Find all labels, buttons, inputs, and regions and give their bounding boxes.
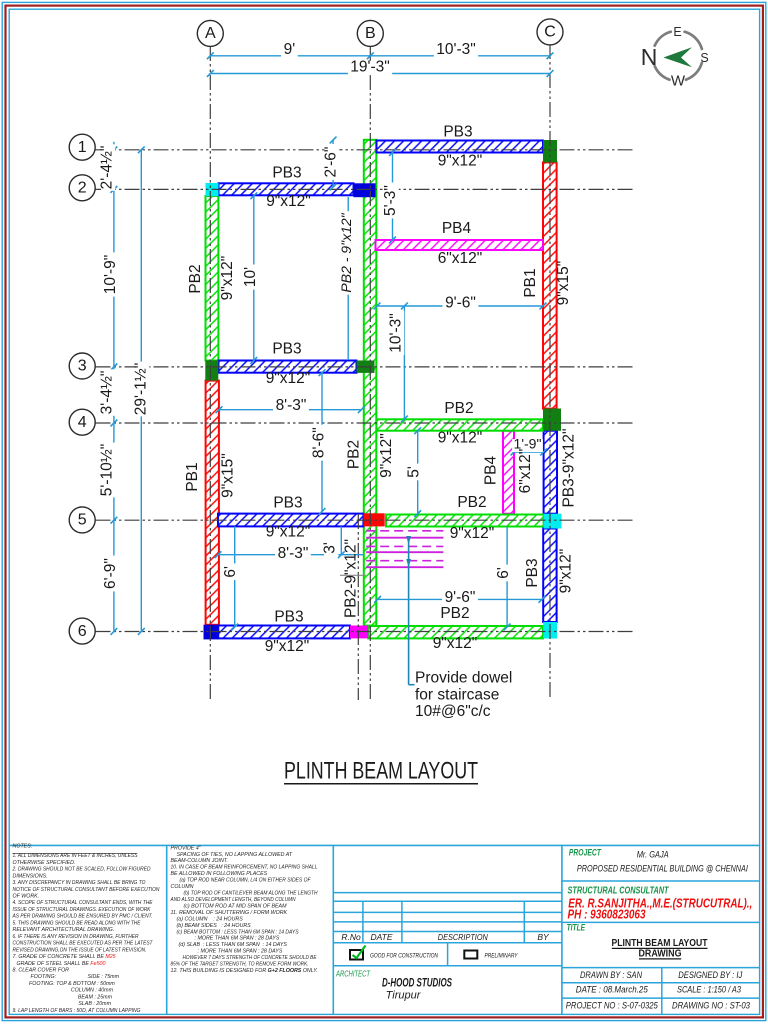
svg-text:GOOD FOR CONSTRUCTION: GOOD FOR CONSTRUCTION: [370, 952, 438, 959]
svg-text:8'-6": 8'-6": [311, 427, 328, 458]
grid bubble B: [357, 20, 383, 46]
svg-text:6"x12": 6"x12": [517, 449, 534, 494]
svg-text:PROJECT NO : S-07-0325: PROJECT NO : S-07-0325: [566, 1000, 659, 1011]
svg-text:DATE: DATE: [370, 932, 392, 942]
svg-text:6: 6: [78, 623, 87, 640]
svg-text:PB1: PB1: [522, 268, 539, 297]
grid line column B: [369, 46, 371, 700]
svg-text:85% OF THE TARGET STRENGTH, TO: 85% OF THE TARGET STRENGTH, TO REMOVE FO…: [171, 962, 309, 968]
svg-text:5. THIS DRAWING SHOULD BE READ: 5. THIS DRAWING SHOULD BE READ ALONG WIT…: [13, 920, 141, 926]
grid line row 4: [96, 422, 635, 424]
dimension 8'-3" room A-B rows 5-6: [218, 554, 364, 556]
svg-text:10': 10': [242, 267, 259, 287]
svg-text:E: E: [673, 25, 681, 39]
svg-text:PROVIDE 4": PROVIDE 4": [171, 845, 202, 851]
staircase grid line near B: [357, 514, 359, 700]
svg-text:DATE : 08.March.25: DATE : 08.March.25: [576, 985, 649, 996]
svg-text:NOTICE OF STRUCTURAL CONSULTAN: NOTICE OF STRUCTURAL CONSULTANT BEFORE E…: [13, 887, 160, 893]
dimension 8'-6" rows 3-5: [321, 373, 323, 512]
svg-text:DESCRIPTION: DESCRIPTION: [438, 932, 489, 942]
staircase edge extension line: [340, 526, 342, 554]
svg-text:DESIGNED BY : IJ: DESIGNED BY : IJ: [678, 970, 742, 981]
svg-text:(c) BOTTOM ROD AT MID SPAN OF: (c) BOTTOM ROD AT MID SPAN OF BEAM: [184, 903, 288, 909]
svg-text:9"x12": 9"x12": [219, 256, 236, 301]
column block B/2 (dark blue): [354, 183, 376, 197]
svg-text:PB2: PB2: [440, 605, 469, 622]
svg-text:: MORE THAN 6M SPAN : 28 DAYS: : MORE THAN 6M SPAN : 28 DAYS: [198, 949, 283, 955]
svg-text:PB4: PB4: [442, 220, 472, 237]
column block B/3 (dark green): [357, 361, 375, 373]
beam PB1 column A rows 3-6 (red 9"x15"): [206, 381, 219, 625]
svg-text:8'-3": 8'-3": [276, 397, 307, 414]
beam PB2 column B rows 1-6 (green 9"x12"): [364, 140, 377, 626]
svg-text:6. IF THERE IS ANY REVISION IN: 6. IF THERE IS ANY REVISION IN DRAWING, …: [13, 934, 139, 940]
svg-text:9"x12": 9"x12": [266, 193, 311, 210]
svg-text:N: N: [641, 44, 658, 70]
svg-text:29'-1½": 29'-1½": [133, 363, 150, 415]
leader gray line at PB2-9"x12" label: [340, 574, 366, 576]
svg-text:DRAWN BY : SAN: DRAWN BY : SAN: [580, 970, 642, 981]
svg-text:D-HOOD STUDIOS: D-HOOD STUDIOS: [382, 978, 452, 990]
svg-text:1: 1: [78, 139, 87, 156]
svg-text:8. CLEAR COVER FOR: 8. CLEAR COVER FOR: [13, 968, 70, 974]
svg-text:A: A: [205, 25, 216, 42]
preliminary checkbox: [464, 951, 477, 959]
svg-text:11. REMOVAL OF SHUTTERING / FO: 11. REMOVAL OF SHUTTERING / FORM WORK: [171, 910, 288, 916]
svg-text:PRELIMINARY: PRELIMINARY: [485, 952, 519, 959]
beam PB3 row 2 A-B (blue 9"x12"): [219, 183, 354, 195]
beam PB2 column A rows 2-3 (green 9"x12"): [206, 196, 219, 361]
svg-text:FOOTING:: FOOTING:: [31, 974, 57, 980]
beam PB3 row 6 A-B (blue 9"x12"): [218, 626, 350, 639]
svg-text:12. THIS BUILDING IS DESIGNED: 12. THIS BUILDING IS DESIGNED FOR G+2 FL…: [171, 968, 318, 974]
revision table: [333, 892, 562, 894]
beam PB2 row 5 B-C (green 9"x12"): [386, 515, 544, 527]
svg-text:5': 5': [406, 466, 423, 478]
dimension 5' room B-C rows 4-5: [417, 431, 419, 514]
column block C/4 (dark green): [543, 409, 561, 431]
svg-text:19'-3": 19'-3": [350, 58, 389, 75]
dimension line 9' / 10'-3" (A-B-C): [210, 55, 550, 57]
svg-text:3'-4½": 3'-4½": [99, 371, 116, 415]
svg-text:PB4: PB4: [483, 455, 500, 485]
svg-text:2: 2: [78, 180, 87, 197]
svg-text:PB2-9"x12": PB2-9"x12": [343, 539, 360, 618]
beam PB3 column C rows 5-6 (blue 9"x12"): [543, 529, 556, 623]
svg-text:ISSUE OF STRUCTURAL DRAWINGS.: ISSUE OF STRUCTURAL DRAWINGS. EXECUTION …: [13, 907, 151, 913]
svg-text:GRADE OF STEEL SHALL BE Fe500: GRADE OF STEEL SHALL BE Fe500: [17, 961, 106, 967]
svg-text:BEAM : 25mm: BEAM : 25mm: [78, 994, 113, 1000]
svg-text:AS PER DRAWING SHOULD BE ENSUR: AS PER DRAWING SHOULD BE ENSURED BY PMC …: [12, 914, 153, 920]
svg-text:PB1: PB1: [184, 462, 201, 491]
grid bubble C: [537, 19, 563, 45]
svg-text:OTHERWISE SPECIFIED.: OTHERWISE SPECIFIED.: [13, 860, 76, 866]
svg-text:3: 3: [78, 358, 87, 375]
svg-text:10'-3": 10'-3": [388, 313, 405, 352]
svg-text:9"x15": 9"x15": [555, 261, 572, 306]
svg-text:9"x12": 9"x12": [433, 635, 478, 652]
grid bubble 1: [69, 134, 95, 160]
svg-text:2. DRAWING SHOULD NOT BE SCALE: 2. DRAWING SHOULD NOT BE SCALED, FOLLOW …: [12, 867, 151, 873]
dimension 9'-6" room B-C rows 5-6: [378, 598, 542, 600]
svg-text:PH : 9360823063: PH : 9360823063: [568, 908, 646, 922]
svg-text:5'-10½": 5'-10½": [99, 444, 116, 496]
compass north arrow: [663, 47, 692, 67]
svg-text:(a) COLUMN : 24 HOURS: (a) COLUMN : 24 HOURS: [177, 916, 244, 922]
svg-text:SPACING OF TIES, NO LAPPING AL: SPACING OF TIES, NO LAPPING ALLOWED AT: [177, 852, 293, 858]
svg-text:DRAWING NO : ST-03: DRAWING NO : ST-03: [672, 1000, 751, 1011]
svg-text:9"x12": 9"x12": [438, 153, 483, 170]
svg-text:FOOTING: TOP & BOTTOM : 50mm: FOOTING: TOP & BOTTOM : 50mm: [29, 981, 115, 987]
svg-text:DRAWING: DRAWING: [639, 948, 682, 959]
svg-text:SCALE : 1:150 / A3: SCALE : 1:150 / A3: [677, 985, 742, 996]
svg-text:NOTES:: NOTES:: [13, 843, 33, 849]
svg-text:9"x12": 9"x12": [266, 524, 311, 541]
beam PB2 row 6 B-C (green 9"x12"): [368, 626, 543, 638]
svg-text:6"x12": 6"x12": [438, 250, 483, 267]
svg-text:PB2: PB2: [187, 264, 204, 293]
grid bubble 3: [69, 353, 95, 379]
grid bubble A: [197, 20, 223, 46]
svg-text:8'-3": 8'-3": [278, 545, 309, 562]
column block C/1 (dark green): [543, 140, 557, 162]
dimension line 19'-3" (A-C): [210, 73, 550, 75]
svg-text:W: W: [671, 72, 686, 89]
beam PB2 row 4 B-C (green 9"x12"): [377, 419, 544, 430]
svg-text:PLINTH BEAM LAYOUT: PLINTH BEAM LAYOUT: [284, 757, 478, 784]
svg-text:3': 3': [322, 542, 339, 554]
svg-text:9"x12": 9"x12": [558, 549, 575, 594]
svg-text:3. ANY DISCREPANCY IN DRAWING: 3. ANY DISCREPANCY IN DRAWING SHALL BE B…: [13, 880, 146, 886]
svg-text:PB3: PB3: [272, 341, 301, 358]
svg-text:6': 6': [495, 567, 512, 579]
svg-text:(b) TOP ROD OF CANTILEVER BEAM: (b) TOP ROD OF CANTILEVER BEAM ALONG THE…: [184, 891, 318, 897]
beam PB3 row 1 B-C (blue 9"x12"): [377, 141, 544, 153]
svg-text:B: B: [365, 25, 376, 42]
svg-text:PB2: PB2: [444, 400, 473, 417]
svg-text:PLINTH BEAM LAYOUT: PLINTH BEAM LAYOUT: [612, 938, 708, 949]
svg-text:9"x12": 9"x12": [378, 433, 395, 478]
svg-text:BE ALLOWED IN FOLLOWING PLACES: BE ALLOWED IN FOLLOWING PLACES: [171, 871, 268, 877]
grid line row 1: [96, 149, 635, 151]
svg-text:ARCHITECT: ARCHITECT: [335, 970, 371, 979]
svg-text:AND ALSO DEVELOPMENT LENGTH, B: AND ALSO DEVELOPMENT LENGTH, BEYOND COLU…: [170, 897, 296, 903]
svg-text:9"x12": 9"x12": [438, 430, 483, 447]
left dimension chain line (rows 1-6): [113, 150, 115, 632]
svg-text:R.No: R.No: [341, 932, 361, 942]
grid bubble 4: [69, 409, 95, 435]
svg-text:STRUCTURAL CONSULTANT: STRUCTURAL CONSULTANT: [568, 886, 670, 897]
svg-text:5'-3": 5'-3": [382, 185, 399, 216]
svg-text:SIDE : 75mm: SIDE : 75mm: [88, 974, 120, 980]
svg-text:10'-3": 10'-3": [436, 41, 475, 58]
grid bubble 6: [69, 618, 95, 644]
column block B/5 (red): [363, 513, 384, 526]
svg-text:REVISED DRAWING,ON THE ISSUE O: REVISED DRAWING,ON THE ISSUE OF LATEST R…: [13, 947, 147, 953]
svg-text:Mr. GAJA: Mr. GAJA: [637, 850, 669, 861]
beam PB4 vertical rows 4-5 (magenta 6"x12"): [503, 431, 514, 514]
svg-text:2'-6": 2'-6": [323, 147, 340, 178]
svg-text:C: C: [544, 24, 556, 41]
svg-text:10#@6"c/c: 10#@6"c/c: [415, 703, 491, 720]
svg-text:(c) BEAM BOTTOM : LESS THAN 6M: (c) BEAM BOTTOM : LESS THAN 6M SPAN : 14…: [177, 929, 299, 935]
grid line row 2: [96, 188, 635, 190]
column block C/5 (cyan): [544, 514, 562, 529]
svg-text:PB2: PB2: [346, 440, 363, 469]
svg-text:Provide dowel: Provide dowel: [415, 670, 512, 687]
svg-text:4. SCOPE OF STRUCTURAL CONSULT: 4. SCOPE OF STRUCTURAL CONSULTANT ENDS, …: [13, 900, 153, 906]
svg-text:PB3: PB3: [272, 165, 301, 182]
svg-text:9"x12": 9"x12": [450, 525, 495, 542]
beam PB3 column C rows 4-5 (blue 9"x12"): [544, 431, 557, 514]
grid bubble 5: [69, 507, 95, 533]
svg-text:PB3: PB3: [524, 558, 541, 587]
svg-text:RELEVANT ARCHITECTURAL DRAWING: RELEVANT ARCHITECTURAL DRAWING.: [13, 927, 115, 933]
dimension 10'-3" at B-C rows: [403, 306, 405, 419]
grid line row 3: [96, 366, 635, 368]
svg-text:1. ALL DIMENSIONS ARE IN FEET: 1. ALL DIMENSIONS ARE IN FEET & INCHES, …: [13, 853, 138, 859]
beam PB1 column C rows 1-4 (red 9"x15"): [543, 162, 557, 408]
svg-text:PB3: PB3: [443, 124, 472, 141]
column block A/6 (dark blue): [204, 625, 219, 640]
svg-text:10'-9": 10'-9": [102, 255, 119, 294]
svg-text:9. LAP LENGTH OF BARS : 50D, A: 9. LAP LENGTH OF BARS : 50D, AT COLUMN L…: [13, 1008, 141, 1014]
title block table frame: [9, 844, 759, 846]
dimension 9'-6" below PB4: [377, 305, 543, 307]
svg-text:10. IN CASE OF BEAM REINFORCEM: 10. IN CASE OF BEAM REINFORCEMENT, NO LA…: [171, 865, 318, 871]
svg-text:(a) TOP ROD NEAR COLUMN, L/4 O: (a) TOP ROD NEAR COLUMN, L/4 ON EITHER S…: [180, 878, 312, 884]
dimension 8'-3" room A-B row 3-4: [219, 409, 361, 411]
svg-text:PB3: PB3: [273, 495, 302, 512]
dimension 3' staircase: [324, 540, 338, 557]
dimension 6' room A-B rows 5-6: [234, 526, 236, 627]
staircase tread lines: [366, 530, 443, 532]
svg-text:HOWEVER 7 DAYS STRENGTH OF CON: HOWEVER 7 DAYS STRENGTH OF CONCRETE SHOU…: [183, 955, 317, 961]
grid line column C: [549, 44, 551, 700]
left overall dimension line 29'-1 1/2": [140, 150, 142, 632]
beam PB3 row 5 A-B (blue 9"x12"): [218, 514, 363, 527]
svg-text:PB3: PB3: [274, 609, 303, 626]
svg-text:9'-6": 9'-6": [445, 589, 476, 606]
dimension 1'-9" PB4 to C: [514, 451, 544, 453]
good for construction checkbox: [350, 950, 363, 960]
svg-text:5: 5: [78, 512, 87, 529]
svg-text:PB2: PB2: [457, 494, 486, 511]
dimension 6' room B-C rows 5-6: [506, 527, 508, 627]
beam PB4 row between 2-3 B-C (magenta 6"x12"): [376, 240, 544, 250]
leader for PB2 - 9"x12" label at B: [347, 197, 349, 360]
svg-text:4: 4: [78, 414, 87, 431]
grid line column A: [209, 46, 211, 700]
svg-text:Tirupur: Tirupur: [386, 989, 422, 1001]
svg-text:SLAB : 20mm: SLAB : 20mm: [78, 1001, 111, 1007]
svg-text:6': 6': [222, 566, 239, 578]
svg-text:DIMENSIONS.: DIMENSIONS.: [13, 873, 48, 879]
svg-text:PROPOSED RESIDENTIAL BUILDING: PROPOSED RESIDENTIAL BUILDING @ CHENNAI: [577, 864, 748, 875]
svg-text:9"x12": 9"x12": [266, 370, 311, 387]
svg-text:PROJECT: PROJECT: [569, 848, 602, 859]
left dimension texts: [101, 144, 115, 191]
column block A/3 (dark green): [205, 360, 218, 380]
svg-text:COLUMN: COLUMN: [171, 884, 194, 890]
svg-text:COLUMN : 40mm: COLUMN : 40mm: [71, 988, 114, 994]
svg-text:PB3-9"x12": PB3-9"x12": [561, 428, 578, 507]
svg-text:9'-6": 9'-6": [445, 295, 476, 312]
svg-text:2'-4½": 2'-4½": [99, 146, 116, 190]
column block A/2 (cyan): [206, 183, 219, 196]
grid line row 5: [96, 519, 635, 521]
svg-text:S: S: [700, 51, 708, 65]
svg-text:: MORE THAN 6M SPAN : 28 DAYS: : MORE THAN 6M SPAN : 28 DAYS: [195, 936, 280, 942]
svg-text:7. GRADE OF CONCRETE SHALL BE: 7. GRADE OF CONCRETE SHALL BE M25: [13, 954, 116, 960]
svg-text:6'-9": 6'-9": [102, 558, 119, 589]
svg-text:TITLE: TITLE: [567, 923, 586, 934]
svg-text:(b) BEAM SIDES : 24 HOURS: (b) BEAM SIDES : 24 HOURS: [177, 923, 252, 929]
staircase direction arrow / dowel leader: [408, 537, 410, 685]
svg-text:9"x15": 9"x15": [220, 453, 237, 498]
label PB2 - 9"x12" column B upper (italic): [342, 211, 355, 295]
svg-text:BY: BY: [537, 932, 550, 942]
project block lines: [562, 880, 760, 882]
dimension 5'-3" rows 1-PB4: [392, 153, 394, 241]
column block B/6 (magenta): [350, 626, 368, 639]
svg-text:9': 9': [284, 41, 296, 58]
beam PB3 row 3 A-B (blue 9"x12"): [219, 361, 357, 373]
svg-text:OF WORK.: OF WORK.: [13, 894, 40, 900]
svg-text:for staircase: for staircase: [415, 687, 499, 704]
svg-text:9"x12": 9"x12": [265, 638, 310, 655]
svg-text:BEAM-COLUMN JOINT.: BEAM-COLUMN JOINT.: [171, 858, 229, 864]
north compass: [641, 25, 709, 90]
dimension 2'-6" at B rows 1-2: [332, 140, 334, 187]
grid line row 6: [96, 631, 635, 633]
svg-text:(d) SLAB : LESS THAN 6M SPAN: (d) SLAB : LESS THAN 6M SPAN : 14 DAYS: [179, 942, 288, 948]
column block C/6 (cyan): [543, 622, 557, 639]
svg-text:PB2 - 9"x12": PB2 - 9"x12": [338, 212, 354, 292]
svg-text:CONSTRUCTION SHALL BE EXECUTED: CONSTRUCTION SHALL BE EXECUTED AS PER TH…: [13, 941, 154, 947]
dimension 10' room A-B rows 2-3: [253, 196, 255, 361]
grid bubble 2: [69, 175, 95, 201]
